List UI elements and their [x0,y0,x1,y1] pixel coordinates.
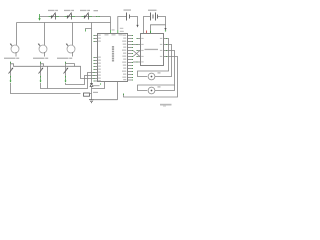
wire bus1 [11,83,81,94]
label M1 [158,72,161,73]
pushbutton S2 [65,13,76,20]
motor M1 [148,73,155,80]
U2 left pins [137,39,141,63]
wire U1 to U2 bottom pin [133,61,137,63]
label U1 top pin names [105,34,109,35]
wire col2 top elbow [41,64,44,67]
wire battery2 right staircase [151,17,166,31]
pin numbers U1 right column [122,35,126,81]
label S3 [80,10,87,11]
wire branch to pin [86,29,92,30]
U2 top pin red [146,31,148,34]
motor M2 [148,87,155,94]
sensor PS3 [64,62,69,80]
wire rail drop right [75,66,94,78]
wire net4 module to gnd bus [124,57,178,98]
label S1 [48,10,55,11]
motor/source SRC3 [66,43,75,53]
sensor PS2 [39,62,44,80]
label S2 [64,10,71,11]
label BAT1 [124,9,132,10]
pin numbers U1 left column [98,35,101,82]
label sensor2 [33,58,45,59]
wire bus2 [41,73,94,89]
wire net3 module to motor2 left [138,51,175,91]
label top pin nums [112,29,115,30]
label net [93,92,98,93]
wire net1 module to motor1 left [138,39,169,77]
watermark fritzing [160,104,172,106]
wire gnd bus bottom [92,99,118,101]
wire U1 to U2 pin [133,44,137,46]
pushbutton S3 [82,13,93,20]
wire column1 top [16,23,18,46]
wire net2 module to motor1 right [155,45,172,77]
wire battery1 right arrow [130,17,138,26]
wire rail2 [17,22,111,24]
IC U1 ATMEGA328 [98,34,128,82]
label U1 [112,46,114,62]
label J1 [94,10,99,11]
battery BAT1 [127,13,130,21]
node VIN [165,30,166,31]
wire col2 arrow to bus [40,79,42,81]
connector J1 [96,16,100,18]
wire U1 TX to U2 RX cross [133,51,140,57]
wire col1 arrow to bus [10,79,12,81]
U1 bottom pins [92,82,105,89]
motor/source SRC1 [10,43,19,53]
wire arrow to node [165,25,167,29]
wire rail1 down to IC pin [110,17,112,31]
wire below diode [91,87,93,100]
wire rail2 drop at x89 [91,23,93,84]
wire col3 arrow to bus [65,79,67,81]
label M2 [158,86,161,87]
wire motor2 right [155,85,175,91]
U1 top pins [110,30,112,33]
label BAT2 [148,10,157,11]
wire column2 top [44,23,46,46]
wire column3 top [72,23,74,46]
U1 left pins top group [94,36,98,42]
label D1 [93,85,100,86]
wire rail drop mid [47,66,49,88]
diode D1 [90,84,93,87]
U2 right pins [164,39,168,57]
U2 top pin green [150,31,152,33]
label sensor3 [57,58,69,59]
sensor PS1 [9,62,14,80]
wire sensor top rail [11,64,75,67]
node gnd stub [123,94,125,96]
U1 right pins [128,36,133,81]
module U2 HC-05 [141,34,164,66]
pushbutton S1 [49,13,60,20]
wire top rail V+ [40,16,111,18]
motor/source SRC2 [38,43,47,53]
label U2 [145,49,159,50]
wire U1 RX to U2 TX cross [133,51,140,57]
battery BAT2 [151,13,158,21]
label sensor1 [4,58,16,59]
resistor R2 [84,93,90,96]
U1 left pins bottom group [94,58,98,82]
wire battery2 left [144,17,151,34]
wire bus3 [66,76,94,85]
wire rail1 end green arrow [39,14,41,19]
wire battery1 left to IC pin [118,17,126,31]
ground GND1 [89,100,94,103]
